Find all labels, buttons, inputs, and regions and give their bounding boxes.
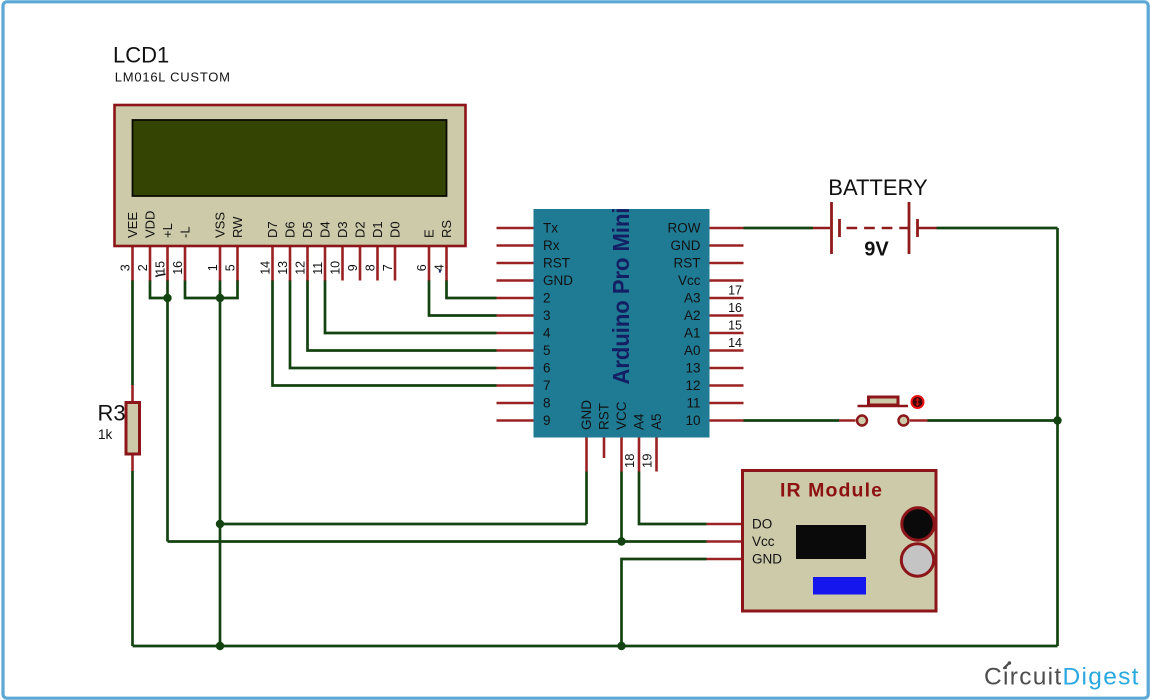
- LCD1 pin names: [125, 211, 454, 238]
- Arduino right pin names: [668, 221, 701, 429]
- svg-text:GND: GND: [543, 273, 573, 288]
- svg-text:9: 9: [543, 413, 551, 428]
- battery pins: [813, 227, 937, 230]
- svg-text:5: 5: [543, 343, 551, 358]
- svg-text:LM016L CUSTOM: LM016L CUSTOM: [115, 70, 231, 85]
- wire A4 to IR DO: [639, 472, 707, 525]
- wire Arduino GND drop: [585, 472, 588, 525]
- svg-text:12: 12: [293, 261, 307, 275]
- svg-text:16: 16: [728, 301, 742, 315]
- blue tick artifact: [439, 270, 441, 273]
- svg-text:17: 17: [728, 284, 742, 298]
- wire button to right bus: [928, 419, 1058, 422]
- svg-text:CircuitDigest: CircuitDigest: [984, 664, 1140, 691]
- button actuator bar: [858, 405, 909, 407]
- wire R3 to bottom: [131, 471, 134, 646]
- wire LCD RS to Arduino 2: [447, 280, 497, 298]
- svg-text:BATTERY: BATTERY: [828, 175, 928, 200]
- junction node -L/VSS/RW: [216, 294, 224, 302]
- wire bottom bus: [133, 645, 1058, 648]
- svg-text:8: 8: [363, 264, 377, 271]
- battery cell 1 plates: [830, 202, 833, 254]
- svg-text:D6: D6: [283, 221, 298, 238]
- wire GND horizontal: [220, 523, 587, 526]
- svg-text:VCC: VCC: [614, 401, 629, 430]
- svg-text:A0: A0: [684, 343, 701, 358]
- svg-text:D2: D2: [353, 221, 368, 238]
- IR module pin names: [752, 517, 782, 567]
- button cap: [869, 397, 899, 405]
- Arduino right pin numbers: [728, 284, 742, 351]
- svg-text:D7: D7: [265, 221, 280, 238]
- svg-text:18: 18: [622, 454, 637, 468]
- svg-text:9V: 9V: [864, 239, 889, 261]
- wire VEE to R3: [131, 280, 134, 385]
- svg-text:IR Module: IR Module: [780, 480, 883, 502]
- svg-text:A2: A2: [684, 308, 701, 323]
- svg-text:14: 14: [258, 261, 272, 275]
- svg-text:+L: +L: [160, 223, 175, 238]
- svg-text:11: 11: [311, 262, 325, 275]
- svg-text:A1: A1: [684, 326, 701, 341]
- wire VDD to +L: [150, 280, 168, 298]
- resistor R3 1k: [98, 385, 140, 471]
- svg-text:14: 14: [728, 336, 742, 350]
- svg-text:LCD1: LCD1: [113, 43, 169, 68]
- svg-text:D0: D0: [388, 221, 403, 238]
- junction node bottom bus left: [216, 642, 224, 650]
- wire IR GND: [622, 559, 707, 646]
- Arduino left pin names: [543, 221, 573, 429]
- svg-text:VEE: VEE: [125, 212, 140, 238]
- svg-text:2: 2: [543, 291, 551, 306]
- LCD1 pin numbers: [118, 261, 446, 275]
- svg-text:RS: RS: [439, 220, 454, 238]
- LCD display LCD1: [113, 43, 466, 281]
- svg-text:5: 5: [223, 264, 237, 271]
- svg-text:1k: 1k: [98, 427, 113, 442]
- svg-text:6: 6: [543, 361, 551, 376]
- IR module gray lens: [901, 544, 933, 576]
- svg-text:19: 19: [640, 454, 655, 468]
- battery cell 2 plates: [908, 202, 911, 254]
- svg-text:ROW: ROW: [668, 221, 701, 236]
- svg-text:Rx: Rx: [543, 238, 560, 253]
- button interactive indicator: [912, 396, 924, 408]
- button pins: [839, 419, 928, 422]
- wire battery to corner: [937, 227, 1058, 230]
- button left contact: [857, 416, 867, 426]
- Arduino bottom pin names: [579, 400, 664, 430]
- push button SW1: [839, 396, 928, 426]
- svg-text:GND: GND: [752, 552, 782, 567]
- svg-text:Tx: Tx: [543, 221, 558, 236]
- svg-text:GND: GND: [579, 400, 594, 430]
- svg-text:VDD: VDD: [143, 211, 158, 238]
- wire RW to node: [220, 280, 238, 298]
- svg-text:2: 2: [136, 264, 150, 271]
- svg-text:15: 15: [728, 319, 742, 333]
- svg-text:8: 8: [543, 396, 551, 411]
- svg-text:A3: A3: [684, 291, 701, 306]
- svg-text:RST: RST: [597, 403, 612, 430]
- Arduino bottom pin numbers: [622, 454, 655, 468]
- svg-text:Vcc: Vcc: [752, 534, 775, 549]
- svg-text:1: 1: [206, 264, 220, 271]
- junction node VCC line: [617, 537, 625, 545]
- svg-text:9: 9: [346, 264, 360, 271]
- button right contact: [899, 416, 909, 426]
- Arduino left pins: [497, 228, 534, 421]
- LCD1 pins: [133, 246, 447, 281]
- IR module black lens: [902, 508, 934, 540]
- svg-text:-L: -L: [178, 226, 193, 238]
- Arduino right pins: [710, 228, 744, 421]
- LCD1 body: [115, 105, 466, 246]
- svg-text:VSS: VSS: [213, 212, 228, 238]
- svg-text:RW: RW: [230, 216, 245, 238]
- cursor artifact: [155, 274, 165, 277]
- svg-text:13: 13: [685, 361, 700, 376]
- svg-text:R3: R3: [98, 401, 126, 426]
- junction node bottom bus mid: [617, 642, 625, 650]
- svg-text:E: E: [422, 229, 437, 238]
- svg-text:A4: A4: [632, 413, 647, 430]
- junction node GND line: [216, 520, 224, 528]
- svg-text:A5: A5: [649, 413, 664, 430]
- IR module pins: [707, 524, 743, 559]
- wire ROW to battery: [744, 227, 814, 230]
- battery dashed link: [847, 227, 909, 230]
- svg-text:10: 10: [328, 261, 342, 275]
- wire VSS / GND vertical: [219, 280, 222, 646]
- svg-text:10: 10: [685, 413, 700, 428]
- wire LCD D7 to Arduino 7: [273, 280, 497, 386]
- LCD1 screen: [133, 120, 447, 196]
- wire -L to node: [185, 280, 220, 298]
- svg-text:13: 13: [276, 261, 290, 275]
- wire pin10 to button: [744, 419, 840, 422]
- wire LCD D6 to Arduino 6: [290, 280, 497, 368]
- svg-text:GND: GND: [671, 238, 701, 253]
- Arduino bottom pins: [587, 438, 657, 472]
- junction node button/right bus: [1053, 416, 1061, 424]
- IR module body: [743, 471, 937, 612]
- IR receiver module U2: [707, 471, 937, 612]
- svg-text:7: 7: [381, 264, 395, 271]
- svg-text:Vcc: Vcc: [678, 273, 701, 288]
- svg-text:3: 3: [118, 264, 132, 271]
- svg-text:6: 6: [415, 264, 429, 271]
- svg-text:D4: D4: [318, 221, 333, 238]
- svg-text:16: 16: [171, 261, 185, 275]
- svg-text:RST: RST: [674, 256, 701, 271]
- svg-text:DO: DO: [752, 517, 772, 532]
- Arduino body: [534, 209, 710, 438]
- junction node VDD/+L: [163, 294, 171, 302]
- svg-text:D5: D5: [300, 221, 315, 238]
- battery BT1 9V: [813, 175, 937, 261]
- svg-text:3: 3: [543, 308, 551, 323]
- svg-text:12: 12: [685, 378, 700, 393]
- microcontroller U1 Arduino Pro Mini: [497, 208, 744, 472]
- svg-text:RST: RST: [543, 256, 570, 271]
- wire right vertical: [1056, 228, 1059, 646]
- CircuitDigest logo: [984, 661, 1140, 690]
- wire LCD D4 to Arduino 4: [325, 280, 497, 333]
- svg-text:D1: D1: [370, 221, 385, 238]
- svg-text:D3: D3: [335, 221, 350, 238]
- wire +L / Vcc vertical: [166, 280, 169, 542]
- svg-text:15: 15: [153, 261, 167, 275]
- wire LCD E to Arduino 3: [429, 280, 497, 316]
- R3 body: [126, 403, 140, 455]
- wire Vcc horizontal: [168, 540, 707, 543]
- svg-text:11: 11: [686, 396, 700, 411]
- svg-text:7: 7: [543, 378, 551, 393]
- wire LCD D5 to Arduino 5: [308, 280, 497, 351]
- svg-text:4: 4: [543, 326, 551, 341]
- svg-text:Arduino Pro Mini: Arduino Pro Mini: [608, 208, 634, 385]
- IR module blue pad: [813, 577, 866, 595]
- R3 pins: [131, 385, 134, 471]
- wire Arduino VCC drop: [620, 472, 623, 542]
- Arduino title: [608, 208, 634, 385]
- IR module receiver chip: [796, 525, 866, 559]
